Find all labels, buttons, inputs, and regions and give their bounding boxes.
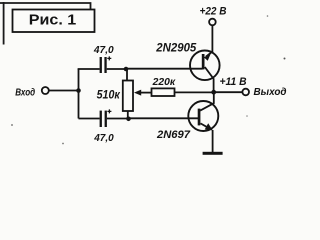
emitter (arrow into base) [206,52,212,57]
wire left vertical branch [78,69,80,119]
node C junction dot [126,117,131,122]
node A junction dot [76,88,81,93]
scan specks [284,58,286,60]
svg-text:510к: 510к [97,89,121,101]
output terminal "Выход" [242,86,287,98]
wire +22V to VT1 emitter [211,25,213,52]
figure caption box "Рис. 1" [13,10,95,33]
svg-text:47,0: 47,0 [93,132,114,144]
svg-text:Вход: Вход [15,88,35,99]
wiper arrow [138,92,152,94]
svg-text:Рис. 1: Рис. 1 [29,11,77,28]
node D output junction dot [211,90,216,95]
collector [200,92,214,110]
capacitor C2 47,0 (bottom electrolytic) [79,109,112,127]
wire node B to base of VT1 [126,68,203,70]
emitter wire down [212,130,214,152]
svg-text:2N697: 2N697 [156,129,191,141]
svg-text:Выход: Выход [254,86,287,98]
transistor VT1 2N2905 (PNP) [190,51,220,93]
capacitor C1 47,0 (top electrolytic) [100,56,112,73]
wire C1 to node B [107,68,126,70]
svg-text:+11 В: +11 В [220,76,247,88]
resistor R2 220к [152,88,214,96]
emitter (arrow out, NPN) [201,123,210,128]
potentiometer R1 510к [123,69,152,119]
+22V supply terminal [200,6,227,26]
svg-text:+22 В: +22 В [200,6,227,18]
page border corner lines (top-left) [0,3,91,9]
transistor VT2 2N697 (NPN) [188,92,218,152]
input terminal "Вход" [15,87,49,99]
svg-text:2N2905: 2N2905 [155,41,196,55]
wire C2 to node C [107,118,129,120]
collector [205,67,214,92]
wire node D to output terminal [214,91,243,93]
wire input to node A [49,90,79,92]
svg-text:220к: 220к [152,77,176,88]
wire to capacitor C1 [78,68,100,70]
ground [203,152,223,155]
wire node C to base of VT2 [129,117,199,119]
node B junction dot [124,67,129,72]
svg-text:47,0: 47,0 [93,44,114,56]
